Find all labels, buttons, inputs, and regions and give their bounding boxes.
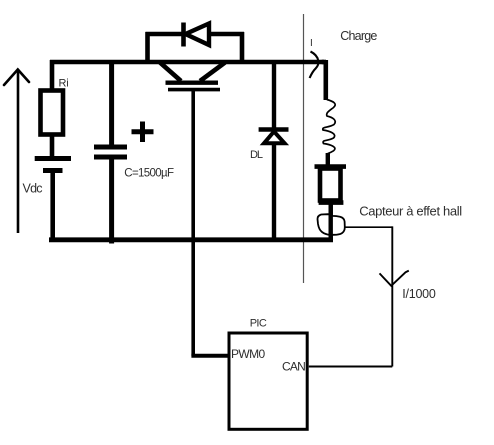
svg-text:PWM0: PWM0 (231, 347, 266, 361)
svg-text:C=1500µF: C=1500µF (124, 167, 174, 179)
svg-text:I/1000: I/1000 (402, 287, 436, 301)
svg-text:Charge: Charge (340, 29, 377, 43)
svg-text:DL: DL (250, 149, 263, 161)
svg-text:Vdc: Vdc (23, 182, 43, 196)
svg-text:I: I (310, 38, 313, 49)
svg-text:CAN: CAN (282, 360, 305, 374)
svg-text:PIC: PIC (250, 318, 267, 330)
svg-text:Ri: Ri (59, 78, 69, 90)
svg-text:Capteur à effet hall: Capteur à effet hall (359, 203, 462, 218)
